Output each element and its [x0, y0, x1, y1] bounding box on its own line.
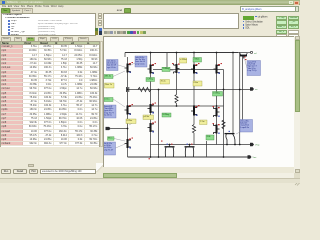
left tabs — [1, 8, 10, 13]
wire branch I vertical — [242, 56, 244, 120]
svg-text:pnp 51.0u: pnp 51.0u — [136, 63, 145, 65]
param label Y5 — [193, 81, 202, 86]
wire VEE bottom rail — [128, 156, 248, 158]
svg-text:0.51u: 0.51u — [105, 98, 110, 100]
annotation box B1 — [107, 60, 119, 71]
terminal VD — [250, 51, 252, 53]
svg-text:0.6m: 0.6m — [194, 82, 199, 84]
svg-text:2.2Meg: 2.2Meg — [147, 78, 154, 80]
param label Y4 — [143, 115, 154, 120]
param label Y1 — [105, 83, 115, 88]
transistor M1 — [165, 144, 175, 157]
wire to top-right transistor — [238, 52, 247, 54]
right top — [97, 8, 122, 12]
resistor R2 — [175, 95, 178, 104]
wire M2 stem — [189, 145, 191, 147]
junction dots — [127, 52, 241, 158]
wire branch C vertical — [176, 53, 178, 95]
svg-text:Rser 1u: Rser 1u — [105, 84, 112, 86]
transistor Q4 — [191, 64, 197, 74]
wire drop x166 — [166, 53, 168, 70]
wire branch E vertical — [216, 53, 218, 145]
wire branch B2 vertical — [158, 90, 160, 158]
wire input — [111, 128, 128, 130]
transistor Q5 — [214, 64, 220, 74]
annotation box B6 — [240, 120, 253, 133]
wire mid bus — [128, 105, 224, 107]
subtabs — [1, 37, 11, 41]
wire signal mid (to OUT1 terminal) — [129, 89, 250, 91]
value label G1 — [104, 75, 113, 79]
value label G5 — [104, 98, 113, 102]
wire branch D vertical — [193, 53, 195, 125]
capacitor C1 — [127, 87, 129, 92]
transistor Q7 — [148, 104, 154, 114]
wire branch D lower — [193, 133, 195, 145]
annotation box B5 — [103, 142, 116, 155]
svg-text:Leq=8.3u: Leq=8.3u — [241, 127, 249, 129]
value label G7 — [162, 113, 171, 117]
terminal VEE — [248, 155, 252, 158]
wire output bus — [151, 144, 251, 146]
right parameter panel — [240, 6, 300, 36]
param label Y3 — [126, 119, 136, 124]
wire branch G vertical — [232, 53, 234, 134]
svg-text:1.5m: 1.5m — [200, 121, 205, 123]
pin annotations — [132, 59, 247, 159]
transistor Q9 — [214, 107, 220, 117]
svg-text:vo: vo — [255, 89, 258, 91]
terminal IN — [106, 127, 112, 130]
param label Y6 — [160, 80, 170, 85]
leader lines — [113, 57, 252, 148]
wire branch C lower — [176, 104, 178, 107]
transistor Q14 output — [225, 131, 236, 145]
annotation box B2 — [135, 56, 147, 67]
svg-text:INsrc: INsrc — [108, 138, 113, 140]
table — [0, 41, 100, 45]
svg-text:vgs 51.0u: vgs 51.0u — [107, 67, 116, 69]
terminal OUT2 — [250, 143, 254, 146]
svg-text:vd: vd — [254, 53, 257, 55]
tree — [1, 13, 96, 36]
resistor R3 — [192, 125, 195, 134]
svg-text:1.0Meg: 1.0Meg — [163, 68, 170, 70]
transistor Q3 — [174, 64, 180, 74]
value label G4 — [193, 58, 202, 63]
wire corner drop — [124, 53, 126, 58]
transistor Q6 — [125, 105, 131, 115]
bottom-left controls — [28, 164, 34, 167]
wire branch A vertical — [127, 57, 129, 157]
transistor Q11 — [214, 124, 220, 134]
svg-text:8.2Meg: 8.2Meg — [163, 114, 170, 116]
wire gate bus upper — [153, 69, 224, 71]
terminal OUT1 — [250, 87, 254, 90]
value label G8 — [213, 92, 223, 97]
annotation box B3 — [247, 61, 261, 76]
transistor Q13 — [240, 53, 248, 59]
wire M1 stem — [169, 145, 171, 147]
wire branch B vertical — [150, 53, 152, 158]
svg-text:p4.3m: p4.3m — [144, 116, 150, 118]
svg-text:Vmi: Vmi — [253, 157, 257, 159]
wire VCC top rail — [125, 52, 238, 54]
resistor R5 — [222, 120, 225, 129]
svg-text:1N5.6u: 1N5.6u — [105, 75, 111, 77]
resistor R1 — [138, 87, 151, 91]
svg-text:2.Bfq5: 2.Bfq5 — [194, 58, 201, 60]
svg-text:35.4u: 35.4u — [161, 80, 166, 82]
value label G6 — [108, 137, 115, 140]
value label G2 — [162, 67, 170, 71]
svg-text:0.35m: 0.35m — [127, 120, 133, 122]
transistor Q10 — [148, 123, 154, 133]
svg-text:Iq 10.5u: Iq 10.5u — [105, 115, 112, 117]
svg-text:0.5Meg: 0.5Meg — [213, 92, 220, 94]
value label G9 — [206, 135, 214, 140]
svg-text:4.0k: 4.0k — [207, 136, 211, 138]
wire branch H vertical — [239, 53, 241, 145]
transistor Q8 — [191, 106, 197, 116]
transistor M2 — [185, 144, 195, 157]
param label Y7 — [200, 120, 208, 125]
svg-text:VOp: VOp — [255, 145, 260, 147]
value label G3 — [146, 78, 155, 82]
svg-text:Leq 75.7p: Leq 75.7p — [248, 70, 258, 72]
svg-text:n.354m: n.354m — [180, 59, 187, 61]
schematic canvas — [103, 36, 294, 167]
transistor Q12 — [125, 139, 131, 149]
svg-text:amp 75.5T: amp 75.5T — [104, 149, 114, 151]
transistor Q2 — [148, 64, 154, 74]
wire branch F vertical — [223, 70, 225, 158]
transistor Q1 — [125, 63, 131, 73]
annotation box B4 — [104, 105, 116, 118]
wire drop x205 — [206, 141, 208, 157]
param label Y2 — [180, 58, 188, 63]
